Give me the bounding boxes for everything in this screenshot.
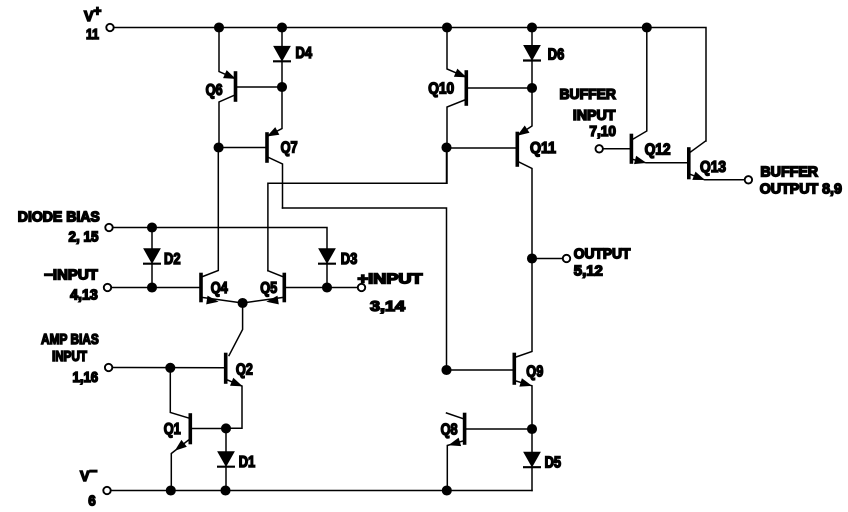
svg-text:D1: D1 [239, 454, 256, 471]
svg-text:2, 15: 2, 15 [69, 230, 99, 246]
junction Q10 collector/Q11 base [442, 143, 451, 152]
svg-text:5,12: 5,12 [574, 264, 603, 280]
transistor Q5 [243, 271, 285, 304]
transistor Q8 [441, 413, 532, 491]
junction V+/Q10 emitter [443, 23, 452, 32]
diode D3 [319, 249, 358, 268]
wire AMP BIAS to Q2 base [113, 367, 224, 369]
svg-text:BUFFER: BUFFER [560, 87, 617, 103]
wire D3 cathode [326, 264, 328, 288]
junction V-/Q1 emitter [167, 486, 176, 495]
wire Q5-collector to Q11-base (upper cross wire) [268, 148, 447, 271]
wire D5 anode [531, 429, 533, 453]
wire Q7-collector to Q9-base (lower cross wire) [283, 208, 447, 370]
junction Q9 emitter/Q8 base/D5 [528, 425, 537, 434]
svg-text:Q11: Q11 [530, 140, 556, 157]
junction V+/Q12 collector [643, 23, 652, 32]
transistor Q9 [447, 259, 544, 430]
junction Q1 base/Q2 emitter/D1 [222, 424, 231, 433]
svg-text:Q5: Q5 [260, 280, 277, 297]
junction D2/-INPUT [148, 283, 157, 292]
wire D2 cathode [151, 264, 153, 288]
terminal BUFFER INPUT pins 7,10 [560, 87, 630, 153]
svg-text:V+: V+ [84, 4, 102, 26]
wire -INPUT to Q4 base [112, 287, 200, 289]
terminal DIODE BIAS pins 2,15 [18, 209, 113, 245]
junction Q9 base/Q8 collector [442, 366, 451, 375]
junction Q6 collector/Q7 base/Q4 collector [214, 143, 223, 152]
terminal BUFFER OUTPUT pins 8,9 [708, 164, 842, 197]
svg-text:1,16: 1,16 [73, 370, 99, 386]
svg-text:OUTPUT 8,9: OUTPUT 8,9 [760, 182, 842, 198]
transistor Q6 [206, 28, 282, 148]
svg-text:INPUT: INPUT [52, 349, 87, 365]
diode D4 [274, 45, 312, 62]
svg-text:DIODE BIAS: DIODE BIAS [18, 209, 100, 225]
wire D4 cathode to node [281, 61, 283, 87]
wire Q5 base to +INPUT [286, 287, 357, 289]
junction diode-bias/D2 [148, 223, 157, 232]
svg-text:V−: V− [80, 464, 98, 486]
svg-text:INPUT: INPUT [573, 108, 616, 124]
wire diode bias net [113, 228, 327, 250]
transistor Q1 [164, 368, 226, 491]
svg-text:Q13: Q13 [700, 159, 726, 176]
svg-text:Q9: Q9 [526, 364, 543, 381]
transistor Q4 [201, 148, 243, 304]
diode D5 [524, 453, 561, 472]
svg-text:Q8: Q8 [441, 422, 458, 439]
svg-text:Q12: Q12 [645, 142, 671, 159]
svg-text:D5: D5 [545, 455, 562, 472]
wire V+ rail [114, 28, 706, 142]
svg-text:Q10: Q10 [428, 81, 454, 98]
wire D2 anode [151, 228, 153, 250]
junction AMP-BIAS/Q1 collector [166, 364, 175, 373]
diode D1 [218, 452, 255, 471]
junction D6/Q10 base/Q11 emitter [528, 84, 537, 93]
wire D6 cathode to node [531, 61, 533, 89]
svg-text:Q7: Q7 [281, 140, 298, 157]
terminal OUTPUT pins 5,12 [532, 247, 631, 280]
svg-text:D6: D6 [548, 47, 565, 64]
svg-text:4,13: 4,13 [70, 288, 98, 304]
svg-text:Q2: Q2 [236, 362, 253, 379]
svg-text:Q6: Q6 [206, 82, 223, 99]
svg-text:7,10: 7,10 [589, 124, 616, 140]
svg-text:Q1: Q1 [164, 421, 181, 438]
diode D6 [524, 46, 565, 64]
wire D6 anode [531, 28, 533, 46]
svg-text:6: 6 [88, 494, 96, 510]
transistor Q11 [447, 88, 556, 259]
wire V- rail [111, 490, 532, 492]
svg-text:+INPUT: +INPUT [358, 272, 423, 288]
junction V-/Q8 emitter [443, 486, 452, 495]
svg-text:BUFFER: BUFFER [760, 164, 818, 180]
junction V+/Q6 emitter [215, 23, 224, 32]
terminal AMP BIAS INPUT pins 1,16 [41, 332, 112, 386]
svg-text:3,14: 3,14 [370, 299, 405, 315]
transistor Q2 [226, 355, 253, 429]
transistor Q12 [631, 28, 687, 164]
svg-text:OUTPUT: OUTPUT [574, 247, 631, 263]
svg-text:D2: D2 [164, 251, 181, 268]
junction D3/+INPUT [323, 283, 332, 292]
junction V+/D4 [278, 23, 287, 32]
wire D1 cathode [225, 467, 227, 491]
terminal V- pin 6 [80, 464, 111, 510]
junction Q4/Q5 emitters [238, 299, 247, 308]
terminal -INPUT pins 4,13 [44, 268, 111, 304]
junction D4/Q6 base/Q7 emitter [278, 83, 287, 92]
wire D1 anode [225, 429, 227, 453]
node OUTPUT [528, 254, 537, 263]
wire D4 anode [281, 28, 283, 47]
svg-text:11: 11 [86, 27, 99, 43]
svg-text:D3: D3 [341, 251, 358, 268]
junction V+/D6 [528, 23, 537, 32]
transistor Q13 [689, 141, 727, 180]
svg-text:Q4: Q4 [211, 280, 228, 297]
svg-text:−INPUT: −INPUT [44, 268, 98, 284]
svg-text:D4: D4 [296, 45, 313, 62]
wire Q4/Q5 emitters to Q2 collector [229, 303, 243, 356]
wire D5 cathode [531, 467, 533, 490]
transistor Q10 [428, 28, 532, 184]
terminal V+ pin 11 [84, 4, 114, 44]
diode D2 [144, 249, 180, 268]
svg-text:AMP BIAS: AMP BIAS [41, 332, 99, 348]
transistor Q7 [219, 87, 298, 208]
junction V-/D1 [221, 486, 230, 495]
terminal +INPUT pins 3,14 [358, 272, 423, 316]
